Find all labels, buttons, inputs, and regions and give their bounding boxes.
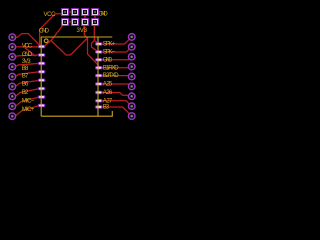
ring pad left 4	[9, 63, 16, 70]
svg-text:SPK+: SPK+	[103, 41, 116, 48]
wire header pad7 to module pad R4	[84, 25, 99, 66]
svg-text:MIC−: MIC−	[22, 98, 35, 105]
module pad R1	[95, 42, 103, 45]
wire header pad7 jog	[71, 38, 88, 55]
wire left MIC+	[15, 105, 41, 116]
svg-text:GND: GND	[103, 56, 113, 63]
wire right GND	[99, 58, 130, 61]
ring pad right 1	[128, 34, 135, 41]
wire left VCC	[15, 46, 41, 48]
ring pad right 8	[128, 103, 135, 110]
ring pad right 2	[128, 44, 135, 51]
module pad L1	[38, 45, 46, 48]
ring pad left 7	[9, 93, 16, 100]
wire right A26	[99, 93, 129, 97]
wire right B3	[99, 107, 130, 114]
ring pad right 3	[128, 53, 135, 60]
wire left B7	[15, 80, 41, 86]
svg-text:B7: B7	[22, 73, 29, 80]
svg-text:3V3: 3V3	[22, 58, 31, 65]
ring pad right 7	[128, 93, 135, 100]
module pad L7	[38, 95, 46, 98]
svg-text:B1/RXD: B1/RXD	[103, 64, 119, 71]
ring pad right 6	[128, 83, 135, 90]
svg-text:VCC: VCC	[44, 11, 57, 18]
module pad R6	[95, 82, 103, 85]
ring pad left 8	[9, 103, 16, 110]
ring pad left 2	[9, 44, 16, 51]
wire stitch to pad L2	[25, 48, 36, 56]
module pad L5	[38, 79, 46, 82]
svg-text:B3: B3	[103, 104, 110, 111]
header pad 1	[61, 8, 69, 16]
wire header col3 link	[84, 15, 86, 19]
svg-text:MIC+: MIC+	[22, 106, 35, 113]
ring pad left 1	[9, 34, 16, 41]
svg-text:SPK−: SPK−	[103, 49, 116, 56]
module pad R2	[95, 50, 103, 53]
module U1 outline	[41, 37, 112, 116]
wire right B2/TXD	[99, 75, 131, 78]
header pad 5	[61, 18, 69, 26]
svg-text:GND: GND	[39, 28, 50, 35]
wire header pad8 to module pad R1	[94, 25, 99, 44]
module pad L4	[38, 70, 46, 73]
svg-text:B2/TXD: B2/TXD	[103, 72, 119, 79]
wire header row2 link	[69, 21, 72, 23]
wire ring1 VCC to module pad L1	[16, 34, 42, 47]
wire left B2	[15, 97, 41, 106]
module pad R9	[95, 105, 103, 108]
module pad L3	[38, 62, 46, 65]
header pad 2	[71, 8, 79, 16]
wire left B6	[15, 89, 41, 97]
wire center zigzag	[51, 41, 71, 56]
svg-text:B6: B6	[22, 81, 29, 88]
module pad L2	[38, 53, 46, 56]
ring pad left 9	[9, 113, 16, 120]
wire jog to module pad R2	[92, 41, 99, 53]
header pad 6	[71, 18, 79, 26]
module pad L8	[38, 104, 46, 107]
wire left GND	[15, 55, 41, 57]
svg-text:GND: GND	[22, 51, 33, 58]
module pad R3	[95, 58, 103, 61]
module pad R8	[95, 99, 103, 102]
header pad 8	[91, 18, 99, 26]
svg-text:A25: A25	[103, 81, 113, 88]
wire left 3V3	[15, 63, 41, 66]
wire right A25	[99, 83, 130, 85]
wire header col4 link	[94, 15, 96, 19]
header pad 3	[81, 8, 89, 16]
wire header pad5 diag to pad L1	[45, 23, 65, 46]
wire right SPK-	[99, 49, 130, 52]
pin-1 marker O	[44, 39, 48, 43]
module pad L6	[38, 87, 46, 90]
ring pad right 5	[128, 73, 135, 80]
ring pad right 9	[128, 113, 135, 120]
svg-text:A26: A26	[103, 89, 113, 96]
module pad R5	[95, 74, 103, 77]
wire header row1 link	[69, 11, 72, 13]
ring pad right 4	[128, 63, 135, 70]
module pad R7	[95, 91, 103, 94]
svg-text:VCC: VCC	[22, 43, 33, 50]
svg-text:B8: B8	[22, 65, 29, 72]
wire left B8	[15, 72, 41, 77]
ring pad left 6	[9, 83, 16, 90]
header pad 7	[81, 18, 89, 26]
svg-text:3V3: 3V3	[77, 27, 88, 34]
wire right A27	[99, 101, 130, 104]
ring pad left 3	[9, 54, 16, 61]
wire right B1/RXD	[99, 67, 131, 68]
ring pad left 5	[9, 73, 16, 80]
svg-text:B2: B2	[22, 89, 29, 96]
header pad 4	[91, 8, 99, 16]
svg-text:GND: GND	[98, 11, 108, 18]
wire header pad1 drop to pad L1	[40, 14, 65, 46]
wire right SPK+	[99, 39, 130, 44]
module pad R4	[95, 66, 103, 69]
